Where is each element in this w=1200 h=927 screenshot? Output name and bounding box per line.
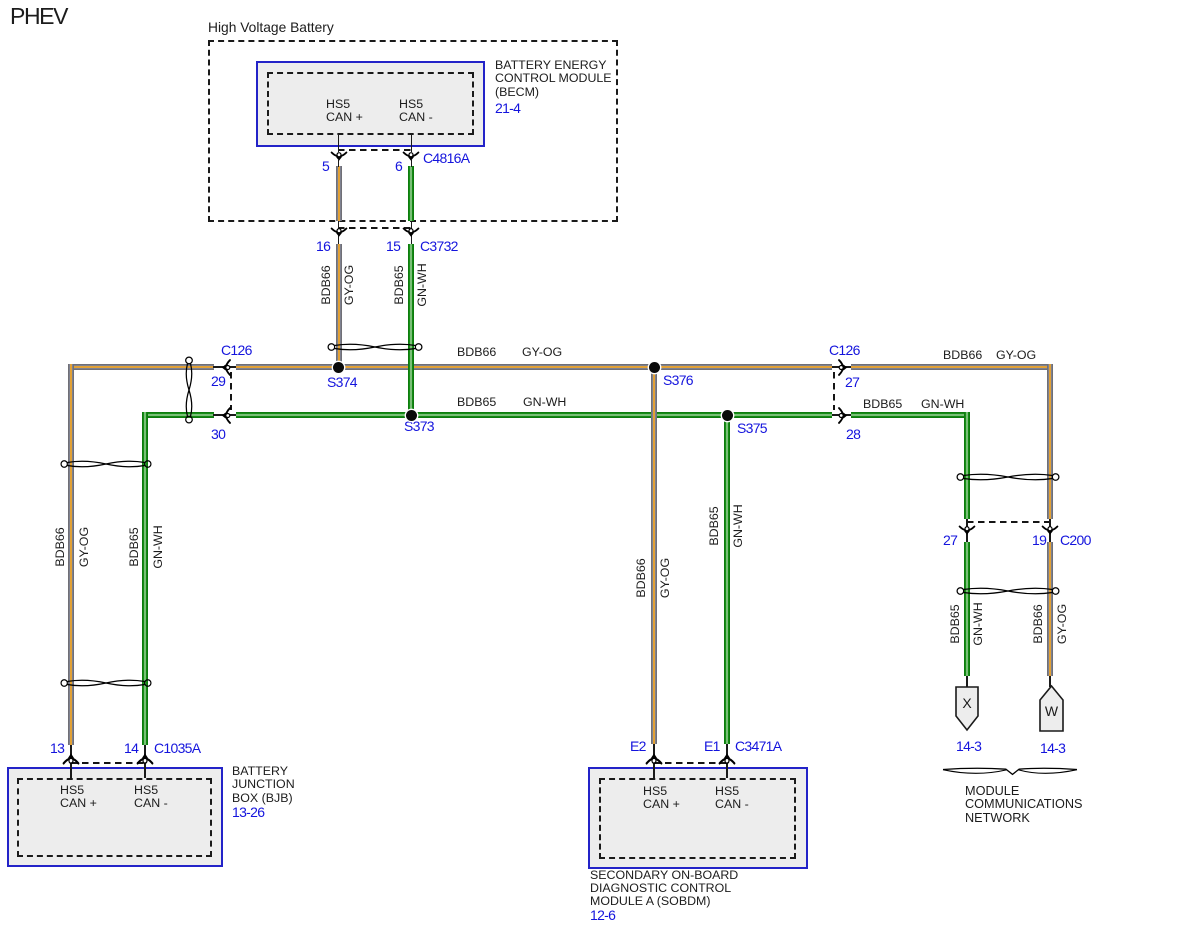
connector arrow C3732 pin 15 bbox=[403, 228, 419, 237]
connector C126 left: thin line tan break bbox=[213, 366, 236, 368]
wire BDB66 mid vertical from S376 bbox=[651, 364, 657, 744]
connector C4816A dashed link bbox=[338, 149, 411, 151]
connector arrow C1035A pin 14 bbox=[137, 753, 153, 764]
BJB pin label HS5 CAN - bbox=[134, 784, 168, 811]
wire label BDB66 (top tan, rotated) bbox=[319, 265, 333, 304]
svg-text:W: W bbox=[1045, 703, 1059, 719]
connector label C200 bbox=[1060, 534, 1091, 547]
pin number 28 (C126 right) bbox=[846, 428, 860, 441]
connector label C1035A bbox=[154, 742, 200, 755]
connector arrow C126 pin 27 (right) bbox=[838, 359, 847, 375]
pin number 5 bbox=[322, 160, 329, 173]
twisted pair (right pair, lower) bbox=[956, 583, 1060, 599]
wire label GN-WH (top green, rotated) bbox=[415, 263, 429, 306]
wire label BDB66 (left tan, rotated) bbox=[53, 527, 67, 566]
pin number 14 bbox=[124, 742, 138, 755]
wire BDB65 GN-WH vertical through tan bus to S373 bbox=[408, 244, 414, 418]
wire BDB66 right vertical upper bbox=[1047, 364, 1053, 519]
splice S375 bbox=[722, 410, 733, 421]
wire BDB66 right vertical lower bbox=[1047, 542, 1053, 676]
pin line below arrow 6 bbox=[411, 160, 413, 167]
label MODULE COMMUNICATIONS NETWORK bbox=[965, 785, 1082, 826]
wire label GY-OG (mid tan, rotated) bbox=[658, 558, 672, 598]
connector C3732 dashed link bbox=[338, 227, 411, 229]
connector label C4816A bbox=[423, 152, 469, 165]
connector C3471A dashed link bbox=[654, 762, 727, 764]
splice S373 bbox=[406, 410, 417, 421]
wire label GN-WH (mid green, rotated) bbox=[731, 504, 745, 547]
wire BDB65 right vertical lower bbox=[964, 542, 970, 676]
BJB pin label HS5 CAN + bbox=[60, 784, 97, 811]
wire BDB66 GY-OG vertical from BECM (upper) bbox=[336, 166, 342, 221]
pin number 29 bbox=[211, 375, 225, 388]
connector arrow C4816A pin 5 bbox=[331, 152, 347, 161]
connector arrow C200 pin 19 bbox=[1042, 526, 1058, 535]
pin number 27 (C200) bbox=[943, 534, 957, 547]
bus label BDB65 GN-WH (right) bbox=[863, 398, 902, 411]
connector arrow C4816A pin 6 bbox=[403, 152, 419, 161]
pin number 15 bbox=[386, 240, 400, 253]
label BATTERY JUNCTION BOX (BJB) bbox=[232, 765, 295, 805]
wire label BDB65 (left green, rotated) bbox=[127, 527, 141, 566]
pin stub BECM pin 6 bbox=[411, 133, 413, 152]
label High Voltage Battery bbox=[208, 21, 334, 34]
connector C126 left dashed vertical bbox=[230, 372, 232, 410]
wire BDB66 bus horizontal segment right bbox=[851, 364, 1053, 370]
label 14-3 (W) bbox=[1040, 742, 1065, 755]
bus label BDB66 GY-OG (middle) bbox=[457, 346, 496, 359]
connector C3732 pin line 16 bbox=[338, 221, 340, 244]
wire label BDB65 (right green, rotated) bbox=[948, 604, 962, 643]
connector arrow C1035A pin 13 bbox=[63, 753, 79, 764]
pin line below arrow 5 bbox=[338, 160, 340, 167]
wire label GY-OG (right tan, rotated) bbox=[1055, 604, 1069, 644]
connector arrow C126 pin 29 (left) bbox=[221, 359, 230, 375]
pin number 13 bbox=[50, 742, 64, 755]
wire BDB66 GY-OG vertical to S374 bbox=[336, 244, 342, 370]
pin number 16 bbox=[316, 240, 330, 253]
pin number 19 (C200) bbox=[1032, 534, 1046, 547]
connector label C126 right bbox=[829, 344, 860, 357]
splice S376 bbox=[649, 362, 660, 373]
label BATTERY ENERGY CONTROL MODULE (BECM) bbox=[495, 59, 612, 99]
connector C1035A dashed link bbox=[71, 762, 145, 764]
wire BDB65 bus horizontal segment right bbox=[851, 412, 970, 418]
wire label GY-OG (top tan, rotated) bbox=[342, 265, 356, 305]
pin number 6 bbox=[395, 160, 402, 173]
wire BDB65 left vertical bbox=[142, 412, 148, 745]
pin number E1 bbox=[704, 740, 720, 753]
twisted pair symbol (top, horizontal) bbox=[327, 339, 423, 355]
terminal lead W bbox=[1049, 676, 1051, 687]
wire BDB65 mid vertical from S375 bbox=[724, 412, 730, 744]
SOBDM pin label HS5 CAN - bbox=[715, 785, 749, 812]
connector C200 dashed link bbox=[967, 521, 1050, 523]
connector label C126 left bbox=[221, 344, 252, 357]
wire label BDB65 (mid green, rotated) bbox=[707, 506, 721, 545]
brace module communications network bbox=[940, 764, 1080, 780]
svg-text:X: X bbox=[962, 695, 972, 711]
splice label S374 bbox=[327, 376, 357, 389]
connector C1035A pin line 13 bbox=[70, 745, 72, 778]
connector arrow C126 pin 28 (right) bbox=[838, 407, 847, 423]
label SECONDARY ON-BOARD DIAGNOSTIC CONTROL MODULE A (SOBDM) bbox=[590, 869, 738, 909]
SOBDM inner dashed box bbox=[599, 778, 796, 859]
wire BDB66 bus horizontal segment middle bbox=[236, 364, 832, 370]
connector C1035A pin line 14 bbox=[144, 745, 146, 778]
title PHEV bbox=[10, 10, 67, 23]
High Voltage Battery dashed boundary box bbox=[208, 40, 618, 222]
wire BDB65 bus horizontal segment middle bbox=[236, 412, 832, 418]
wire label GY-OG (left tan, rotated) bbox=[77, 527, 91, 567]
bus label BDB66 GY-OG (right) bbox=[943, 349, 982, 362]
twisted pair (right pair, upper) bbox=[956, 469, 1060, 485]
splice S374 bbox=[333, 362, 344, 373]
wire BDB65 right vertical upper bbox=[964, 412, 970, 519]
terminal lead X bbox=[966, 676, 968, 687]
label 12-6 bbox=[590, 909, 615, 922]
label 21-4 bbox=[495, 102, 520, 115]
connector C3732 pin line 15 bbox=[411, 221, 413, 244]
module box BECM bbox=[256, 61, 485, 147]
pin number 30 bbox=[211, 428, 225, 441]
BECM pin label HS5 CAN + bbox=[326, 98, 363, 125]
connector C3471A pin line E1 bbox=[726, 744, 728, 778]
connector C126 right dashed vertical bbox=[833, 372, 835, 410]
wire BDB65 bus horizontal segment left bbox=[142, 412, 214, 418]
wire label BDB65 (top green, rotated) bbox=[392, 265, 406, 304]
wire BDB66 left vertical bbox=[68, 364, 74, 745]
wire BDB66 bus horizontal segment left bbox=[68, 364, 214, 370]
splice label S375 bbox=[737, 422, 767, 435]
BECM inner dashed box bbox=[267, 72, 474, 135]
module box BJB bbox=[7, 767, 223, 867]
connector C126 right: thin line green break bbox=[832, 414, 851, 416]
pin number 27 (C126 right) bbox=[845, 376, 859, 389]
twisted pair symbol (left C126 area, vertical) bbox=[181, 356, 197, 424]
splice label S373 bbox=[404, 420, 434, 433]
twisted pair (left pair, upper) bbox=[60, 456, 152, 472]
connector C126 right: thin line tan break bbox=[832, 366, 851, 368]
pin stub BECM pin 5 bbox=[338, 133, 340, 152]
bus label BDB65 GN-WH (middle) bbox=[457, 396, 496, 409]
connector arrow C3732 pin 16 bbox=[331, 228, 347, 237]
splice label S376 bbox=[663, 374, 693, 387]
wire label BDB66 (right tan, rotated) bbox=[1031, 604, 1045, 643]
twisted pair (left pair, lower) bbox=[60, 675, 152, 691]
connector C200 pin line 27 bbox=[966, 519, 968, 542]
connector C200 pin line 19 bbox=[1049, 519, 1051, 542]
defs: connector arrow symbol bbox=[0, 0, 1, 1]
connector arrow C200 pin 27 bbox=[959, 526, 975, 535]
terminal X (to 14-3) bbox=[955, 686, 979, 732]
connector arrow C126 pin 30 (left) bbox=[221, 407, 230, 423]
SOBDM pin label HS5 CAN + bbox=[643, 785, 680, 812]
connector C3471A pin line E2 bbox=[653, 744, 655, 778]
wire label GN-WH (right green, rotated) bbox=[971, 602, 985, 645]
BECM pin label HS5 CAN - bbox=[399, 98, 433, 125]
wire label GN-WH (left green, rotated) bbox=[151, 525, 165, 568]
connector arrow C3471A pin E2 bbox=[646, 753, 662, 764]
wire BDB65 GN-WH vertical from BECM (upper) bbox=[408, 166, 414, 221]
label 13-26 bbox=[232, 806, 264, 819]
module box SOBDM bbox=[588, 767, 808, 869]
connector label C3471A bbox=[735, 740, 781, 753]
BJB inner dashed box bbox=[17, 778, 212, 857]
label 14-3 (X) bbox=[956, 740, 981, 753]
pin number E2 bbox=[630, 740, 646, 753]
connector C126 left: thin line green break bbox=[213, 414, 236, 416]
connector arrow C3471A pin E1 bbox=[719, 753, 735, 764]
connector label C3732 bbox=[420, 240, 458, 253]
wire label BDB66 (mid tan, rotated) bbox=[634, 558, 648, 597]
terminal W (to 14-3) bbox=[1039, 685, 1064, 732]
